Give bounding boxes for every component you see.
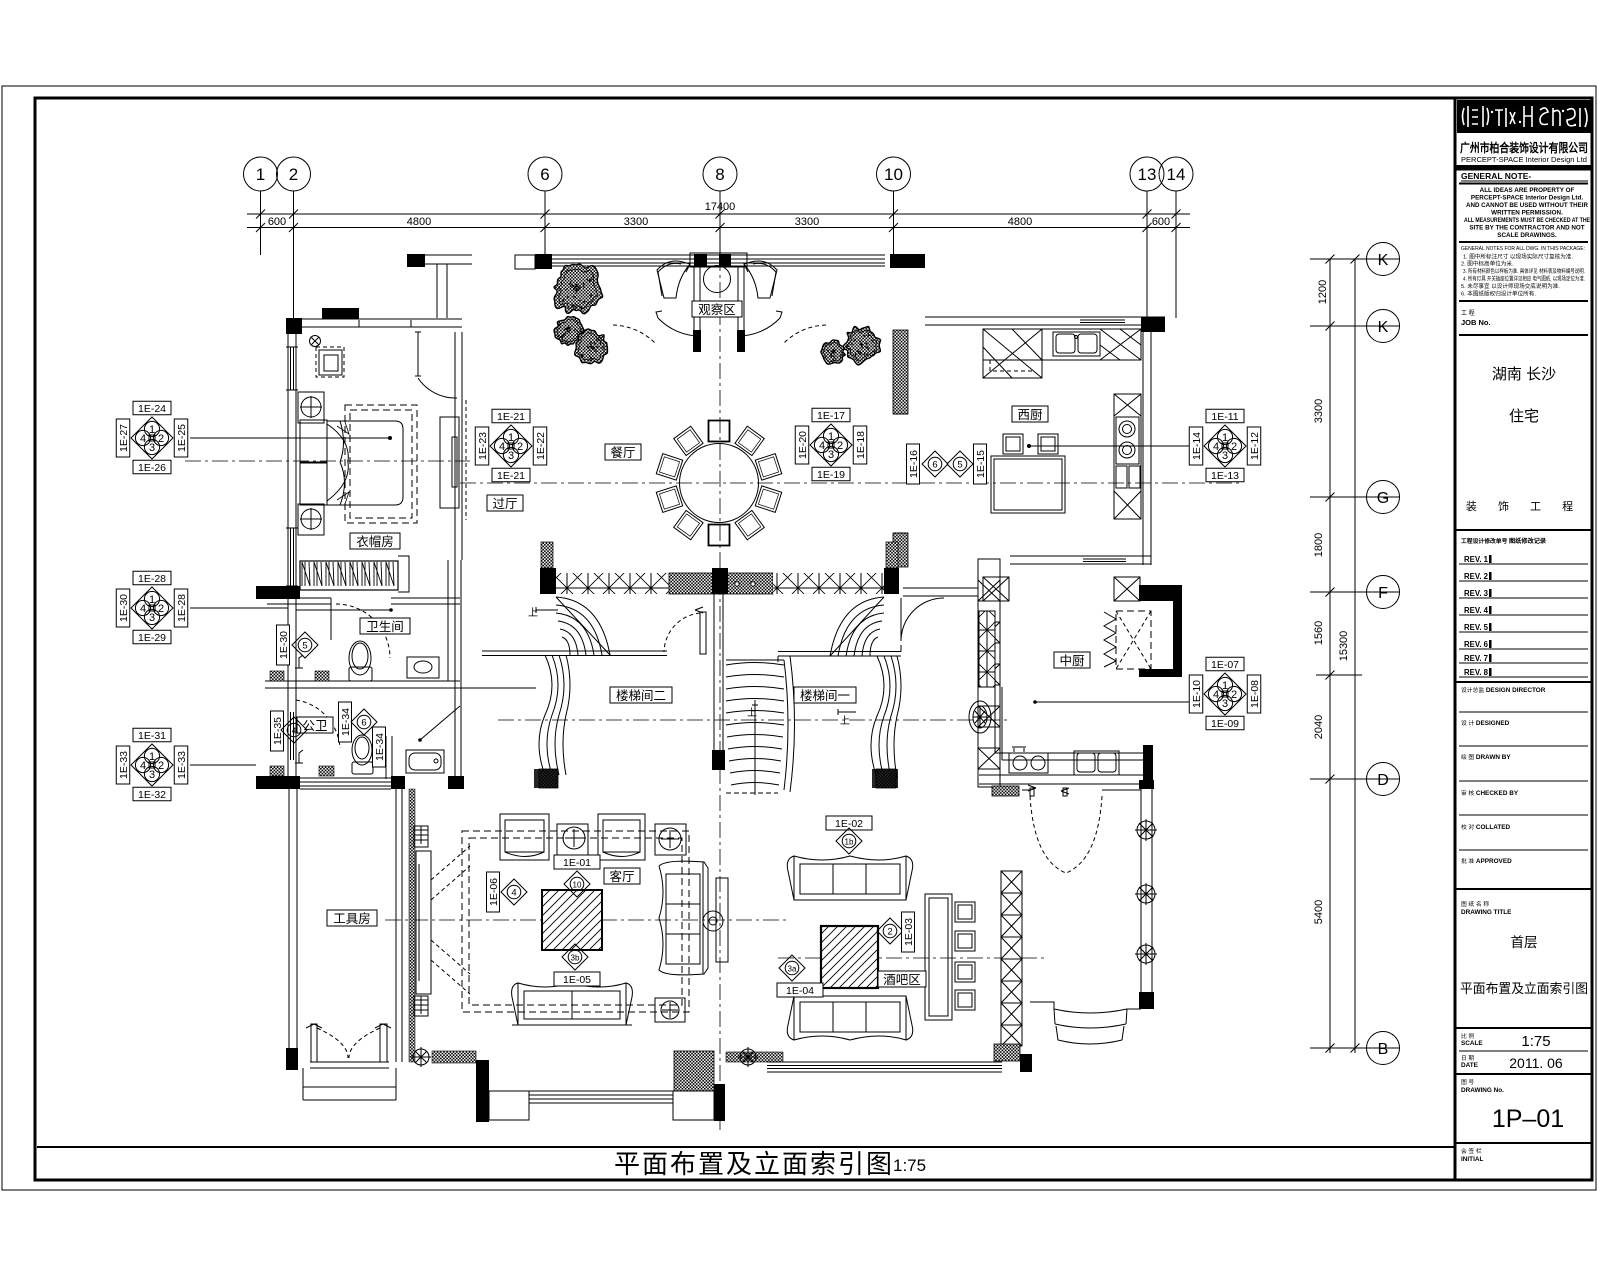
- svg-text:1:75: 1:75: [1521, 1033, 1550, 1050]
- svg-text:1E-04: 1E-04: [786, 985, 814, 997]
- index diamond 1b: [836, 828, 862, 854]
- column top wall right: [890, 254, 925, 268]
- leader C7: [1035, 701, 1197, 703]
- grid bubble K2: [1367, 310, 1400, 343]
- centerline living room: [385, 919, 790, 921]
- kitchen top X boxes: [1100, 329, 1141, 360]
- right grid tick K2: [1310, 325, 1400, 327]
- stair2 up arrow: [536, 607, 558, 613]
- bar counter: [925, 894, 952, 1020]
- index diamond 3a: [779, 955, 805, 981]
- index box 1E-01: [554, 855, 600, 869]
- svg-text:1800: 1800: [1313, 533, 1325, 557]
- svg-text:REV. 1: REV. 1: [1464, 555, 1489, 564]
- kitchen top counter: [983, 329, 1141, 360]
- svg-text:1:75: 1:75: [893, 1156, 926, 1175]
- bath2 door arc: [296, 700, 340, 748]
- bar stools: [955, 902, 975, 922]
- leader from C6: [1029, 445, 1197, 447]
- bottom wall of bath wing: [256, 776, 300, 789]
- svg-text:13: 13: [1138, 165, 1157, 184]
- elevation cluster 1E-31/1E-33/1E-32/1E-33: [116, 728, 188, 801]
- svg-text:比 例: 比 例: [1461, 1032, 1474, 1040]
- svg-text:600: 600: [1152, 216, 1170, 228]
- room label 衣帽房: [350, 533, 400, 549]
- living center table: [542, 890, 602, 950]
- svg-text:SITE BY THE CONTRACTOR AND N: SITE BY THE CONTRACTOR AND NOT: [1469, 225, 1584, 232]
- black separator bar: [1455, 165, 1592, 171]
- svg-text:1E-33: 1E-33: [176, 751, 188, 779]
- svg-text:日 期: 日 期: [1461, 1055, 1474, 1062]
- speaker box A: [298, 392, 324, 423]
- index diamond 5: [947, 451, 973, 477]
- svg-text:1E-15: 1E-15: [975, 450, 987, 478]
- tool room right wall: [395, 789, 397, 1062]
- wall stub down from col: [436, 264, 438, 318]
- decorative column: [969, 701, 991, 733]
- svg-text:2040: 2040: [1313, 715, 1325, 739]
- index box 1E-16: [907, 444, 921, 484]
- svg-text:首层: 首层: [1511, 935, 1538, 950]
- index diamond 6: [922, 451, 948, 477]
- bar top sofa: [787, 856, 913, 900]
- svg-text:工具房: 工具房: [333, 911, 371, 926]
- room label 楼梯间二: [610, 687, 672, 703]
- svg-text:4: 4: [499, 441, 505, 453]
- window symbols: [1135, 819, 1157, 965]
- grid bubble 1: [244, 157, 278, 191]
- dresser top: [316, 347, 344, 377]
- svg-text:1E-34: 1E-34: [374, 733, 386, 761]
- svg-text:1200: 1200: [1317, 280, 1329, 304]
- bedroom door: [415, 332, 421, 376]
- bed: [300, 420, 403, 505]
- kitchen top wall: [925, 316, 1165, 318]
- middle kitchen west hatch: [979, 611, 995, 687]
- bathtub: [406, 750, 444, 773]
- svg-text:1E-03: 1E-03: [903, 918, 915, 946]
- tool room left wall: [288, 789, 290, 1062]
- svg-text:1E-20: 1E-20: [797, 431, 809, 459]
- middle kitchen X columns: [983, 577, 1009, 601]
- svg-text:平面布置及立面索引图: 平面布置及立面索引图: [1460, 981, 1588, 996]
- bathroom1 walls: [267, 598, 331, 604]
- svg-text:REV. 5: REV. 5: [1464, 623, 1489, 632]
- dining chairs: [656, 421, 781, 546]
- svg-text:楼梯间二: 楼梯间二: [616, 688, 666, 703]
- tree group top right: [821, 326, 881, 364]
- svg-text:1E-28: 1E-28: [176, 594, 188, 622]
- svg-text:平面布置及立面索引图: 平面布置及立面索引图: [614, 1149, 894, 1179]
- bed rug dashed: [345, 405, 417, 523]
- svg-text:餐厅: 餐厅: [610, 445, 635, 460]
- column at grid (top wall left): [407, 254, 425, 267]
- speaker box B: [298, 504, 324, 535]
- left exterior wall lower (公卫): [287, 599, 289, 776]
- club room right window wall: [1140, 788, 1142, 1005]
- bathroom1 toilet: [349, 641, 372, 681]
- svg-text:5: 5: [302, 641, 307, 652]
- logo black box: [1457, 100, 1592, 133]
- grid line 10: [893, 191, 895, 258]
- svg-text:DRAWING No.: DRAWING No.: [1461, 1087, 1504, 1094]
- svg-text:1E-09: 1E-09: [1211, 718, 1239, 730]
- svg-text:衣帽房: 衣帽房: [356, 534, 394, 549]
- kitchen sink: [1053, 332, 1100, 356]
- svg-text:GENERAL NOTE-: GENERAL NOTE-: [1461, 171, 1531, 181]
- svg-text:B: B: [1378, 1041, 1389, 1058]
- hall lower wall left of stairs: [461, 687, 536, 689]
- svg-text:绘 图 DRAWN BY: 绘 图 DRAWN BY: [1461, 753, 1511, 761]
- window stripes left wall: [291, 347, 294, 390]
- top dimension line 17400: [247, 213, 1190, 215]
- kitchen cabinets small: [1116, 466, 1127, 488]
- svg-text:批 准 APPROVED: 批 准 APPROVED: [1461, 857, 1512, 865]
- centerline dining horizontal: [460, 482, 1240, 484]
- svg-text:8: 8: [715, 165, 724, 184]
- svg-text:设计总监 DESIGN DIRECTOR: 设计总监 DESIGN DIRECTOR: [1461, 686, 1546, 694]
- svg-text:REV. 6: REV. 6: [1464, 640, 1489, 649]
- svg-text:3: 3: [1222, 450, 1228, 462]
- grid line 1: [260, 191, 262, 255]
- corridor door mid: [700, 612, 706, 654]
- elevation cluster 1E-21/1E-22/1E-21/1E-23: [475, 409, 547, 482]
- bar mirror table: [821, 926, 878, 988]
- curved steps bottom right: [1030, 1002, 1141, 1009]
- elevation cluster 1E-17/1E-18/1E-19/1E-20: [795, 408, 867, 481]
- svg-text:4: 4: [511, 888, 516, 899]
- index box 1E-34: [339, 702, 353, 742]
- grid line 14: [1175, 191, 1177, 318]
- corridor wall x448 lower: [447, 604, 449, 681]
- entry vestibule walls: [693, 267, 695, 330]
- svg-text:1E-23: 1E-23: [477, 432, 489, 460]
- bath2 toilet: [352, 735, 373, 774]
- porch steps center: [529, 1091, 673, 1103]
- index diamond 6: [351, 709, 377, 735]
- svg-text:INITIAL: INITIAL: [1461, 1156, 1483, 1163]
- svg-text:1P–01: 1P–01: [1492, 1105, 1564, 1133]
- right grid tick mid: [1316, 674, 1362, 676]
- room label 卫生间: [360, 618, 410, 634]
- svg-text:楼梯间一: 楼梯间一: [800, 688, 850, 703]
- svg-text:D: D: [1377, 772, 1389, 789]
- svg-text:F: F: [1378, 585, 1388, 602]
- svg-text:4: 4: [1213, 441, 1219, 453]
- central stair wall: [713, 594, 715, 769]
- grid bubble 6: [528, 157, 562, 191]
- left exterior wall upper: [287, 327, 289, 592]
- grid bubble B: [1367, 1032, 1400, 1065]
- svg-text:REV. 7: REV. 7: [1464, 654, 1488, 663]
- svg-text:AND CANNOT BE USED WITHOUT: AND CANNOT BE USED WITHOUT THEIR: [1466, 202, 1588, 209]
- svg-text:6. 本图纸版权归设计单位所有.: 6. 本图纸版权归设计单位所有.: [1461, 290, 1536, 298]
- elevator: [1139, 585, 1182, 601]
- svg-text:10: 10: [573, 881, 582, 890]
- club top-right wall + double door: [1022, 789, 1141, 791]
- index box 1E-34: [373, 727, 387, 767]
- svg-text:10: 10: [884, 165, 903, 184]
- svg-text:REV. 4: REV. 4: [1464, 606, 1489, 615]
- svg-text:图 纸 名 称: 图 纸 名 称: [1461, 900, 1489, 908]
- svg-text:1E-05: 1E-05: [563, 974, 591, 986]
- svg-text:3300: 3300: [795, 216, 819, 228]
- right grid tick G: [1310, 496, 1400, 498]
- svg-text:上: 上: [840, 715, 850, 727]
- wall patch above bedroom: [322, 308, 359, 319]
- grid bubble 13: [1130, 157, 1164, 191]
- centerline bar: [778, 957, 1045, 959]
- svg-text:1b: 1b: [845, 838, 854, 847]
- svg-text:5. 未尽事宜 以设计师现场交底说明为准.: 5. 未尽事宜 以设计师现场交底说明为准.: [1461, 282, 1560, 290]
- stair1 fan right: [778, 597, 901, 778]
- svg-text:PERCEPT-SPACE Interior Desig: PERCEPT-SPACE Interior Design Ltd.: [1471, 195, 1583, 202]
- room label 客厅: [604, 868, 640, 884]
- MARKERS: [116, 401, 1261, 997]
- svg-text:会 签 栏: 会 签 栏: [1461, 1147, 1482, 1155]
- dining table: [680, 444, 759, 523]
- svg-text:SCALE: SCALE: [1461, 1040, 1483, 1047]
- svg-text:4. 所有灯具 开关插座位置详见相应 电气图纸, 以现场: 4. 所有灯具 开关插座位置详见相应 电气图纸, 以现场定位为准.: [1463, 275, 1585, 283]
- right grid tick B: [1310, 1047, 1400, 1049]
- kitchen island: [991, 456, 1065, 513]
- island chairs: [1003, 434, 1023, 454]
- grid line 6: [544, 191, 546, 258]
- svg-text:G: G: [1377, 490, 1389, 507]
- svg-text:观察区: 观察区: [698, 303, 736, 317]
- mk bottom wall: [979, 775, 1151, 784]
- PLAN: [185, 253, 1240, 1130]
- porch column left: [476, 1060, 489, 1122]
- grid line 13: [1146, 191, 1148, 318]
- elevation cluster 1E-11/1E-12/1E-13/1E-14: [1189, 409, 1261, 482]
- grid bubble 2: [277, 157, 311, 191]
- svg-text:600: 600: [268, 216, 286, 228]
- index box 1E-05: [554, 972, 600, 986]
- svg-text:1E-12: 1E-12: [1249, 432, 1261, 460]
- svg-text:1E-32: 1E-32: [138, 789, 166, 801]
- svg-text:REV. 8: REV. 8: [1464, 668, 1489, 677]
- central stair treads: [726, 656, 795, 793]
- title block left border: [1454, 98, 1457, 1180]
- index diamond 4: [281, 717, 307, 743]
- club west window wall: [978, 559, 1000, 787]
- index box 1E-04: [777, 983, 823, 997]
- stair band columns: [541, 542, 553, 568]
- svg-text:审 核 CHECKED BY: 审 核 CHECKED BY: [1461, 789, 1519, 797]
- svg-text:工程设计修改单号 图纸修改记录: 工程设计修改单号 图纸修改记录: [1461, 537, 1547, 545]
- kitchen mid wall: [1010, 556, 1151, 564]
- bath2 leader: [420, 706, 460, 740]
- svg-text:ALL MEASUREMENTS MUST BE CHECK: ALL MEASUREMENTS MUST BE CHECKED AT THE: [1464, 217, 1590, 224]
- svg-text:ALL IDEAS ARE PROPERTY OF: ALL IDEAS ARE PROPERTY OF: [1480, 187, 1575, 194]
- svg-text:3: 3: [149, 612, 155, 624]
- dressing mirror panel: [440, 417, 459, 508]
- svg-text:6: 6: [540, 165, 549, 184]
- index box 1E-35: [271, 711, 285, 751]
- room label 公卫: [297, 717, 333, 733]
- porch column right (hatched): [674, 1051, 714, 1091]
- wardrobe hatch row: [300, 561, 398, 590]
- grid bubble 8: [703, 157, 737, 191]
- svg-text:3300: 3300: [624, 216, 648, 228]
- svg-text:4: 4: [140, 433, 146, 445]
- grid line 8: [719, 191, 721, 255]
- grid bubble K: [1367, 243, 1400, 276]
- bar bottom sofa: [787, 996, 913, 1040]
- svg-text:5400: 5400: [1313, 900, 1325, 924]
- kitchen west door arc: [893, 414, 908, 533]
- club top wall: [903, 588, 978, 596]
- dim ticks top: [256, 210, 1181, 233]
- corner symbol bedroom: [310, 336, 321, 347]
- svg-text:上: 上: [747, 707, 757, 719]
- kitchen right counter: [1114, 394, 1141, 519]
- tool room porch steps: [303, 1062, 396, 1100]
- svg-text:1: 1: [256, 165, 265, 184]
- svg-text:3: 3: [149, 442, 155, 454]
- living rug dashed: [462, 831, 689, 1012]
- room label 酒吧区: [878, 971, 926, 987]
- svg-text:1E-10: 1E-10: [1191, 680, 1203, 708]
- porch step box right: [673, 1091, 714, 1120]
- svg-text:住宅: 住宅: [1509, 408, 1539, 425]
- index box 1E-03: [902, 912, 916, 952]
- svg-text:3. 所有材料颜色以样板为准. 具体详见 材料表及物料编号: 3. 所有材料颜色以样板为准. 具体详见 材料表及物料编号说明.: [1463, 267, 1585, 275]
- svg-text:1E-22: 1E-22: [535, 432, 547, 460]
- svg-text:REV. 3: REV. 3: [1464, 589, 1489, 598]
- index box 1E-15: [974, 444, 988, 484]
- stair band X right: [773, 573, 884, 594]
- svg-text:1E-21: 1E-21: [497, 411, 525, 423]
- svg-text:图 号: 图 号: [1461, 1078, 1474, 1086]
- svg-text:1E-33: 1E-33: [118, 751, 130, 779]
- room label 中厨: [1054, 652, 1090, 668]
- svg-text:4: 4: [140, 760, 146, 772]
- svg-text:1E-19: 1E-19: [817, 469, 845, 481]
- svg-text:1E-17: 1E-17: [817, 410, 845, 422]
- svg-text:3: 3: [828, 449, 834, 461]
- index box 1E-30: [277, 625, 291, 665]
- kitchen right wall: [1142, 325, 1144, 565]
- porch benches (观察区): [657, 261, 777, 298]
- centerline bedroom: [185, 460, 470, 462]
- svg-text:1E-24: 1E-24: [138, 403, 166, 415]
- elevation cluster 1E-24/1E-25/1E-26/1E-27: [116, 401, 188, 474]
- index box 1E-02: [826, 816, 872, 830]
- centerline stairs: [498, 719, 1010, 721]
- bath2 wall mid: [386, 736, 392, 779]
- grid line 2: [293, 191, 295, 318]
- svg-text:REV. 2: REV. 2: [1464, 572, 1489, 581]
- svg-text:6: 6: [932, 460, 937, 471]
- entry canopy: [690, 253, 747, 267]
- bottom title bar line: [37, 1146, 1455, 1148]
- index diamond 3b: [562, 944, 588, 970]
- svg-text:2: 2: [289, 165, 298, 184]
- svg-text:装 饰 工 程: 装 饰 工 程: [1466, 499, 1582, 513]
- room label 工具房: [327, 910, 377, 926]
- index box 1E-06: [487, 872, 501, 912]
- grid bubble D: [1367, 763, 1400, 796]
- insulation blocks bath1: [270, 671, 284, 681]
- entry door arcs: [656, 311, 700, 336]
- right grid tick D: [1310, 778, 1400, 780]
- mk stove: [1009, 753, 1048, 773]
- svg-text:3: 3: [508, 450, 514, 462]
- room label 餐厅: [605, 444, 641, 460]
- svg-text:DATE: DATE: [1461, 1062, 1479, 1069]
- svg-text:6: 6: [361, 718, 366, 729]
- index diamond 10: [564, 871, 590, 897]
- top wall upper band: [407, 253, 925, 318]
- right dimension line 15300: [1329, 259, 1331, 1053]
- living long sofa: [659, 861, 708, 975]
- mk sink: [1074, 751, 1119, 775]
- finish band right of tool room: [409, 789, 415, 1062]
- TITLEBLOCK: [1455, 98, 1592, 1180]
- living armchair 1: [500, 814, 549, 860]
- svg-text:K: K: [1378, 319, 1389, 336]
- svg-text:西厨: 西厨: [1017, 408, 1042, 422]
- living bottom window band right: [726, 1052, 783, 1062]
- svg-text:过厅: 过厅: [492, 497, 517, 511]
- svg-text:1E-21: 1E-21: [497, 470, 525, 482]
- right grid tick K: [1310, 258, 1400, 260]
- grid bubble 10: [877, 157, 911, 191]
- svg-text:1560: 1560: [1313, 621, 1325, 645]
- tree group top left: [554, 264, 608, 363]
- index diamond 4: [501, 879, 527, 905]
- bar screen X band: [1001, 871, 1022, 1046]
- svg-text:1. 图中所标注尺寸 以现场实际尺寸复核为准.: 1. 图中所标注尺寸 以现场实际尺寸复核为准.: [1463, 253, 1573, 261]
- svg-text:4: 4: [292, 727, 297, 736]
- svg-text:SCALE DRAWINGS.: SCALE DRAWINGS.: [1497, 232, 1557, 239]
- living bottom wall window band left: [432, 1053, 476, 1062]
- svg-text:酒吧区: 酒吧区: [883, 973, 921, 987]
- svg-text:14: 14: [1167, 165, 1186, 184]
- sliding door panel living west: [416, 851, 431, 994]
- svg-text:1E-31: 1E-31: [138, 730, 166, 742]
- porch step box left: [489, 1091, 529, 1120]
- bathroom1 leader: [296, 609, 391, 611]
- elevation cluster 1E-28/1E-28/1E-29/1E-30: [116, 571, 188, 644]
- svg-text:1E-14: 1E-14: [1191, 432, 1203, 460]
- room label 过厅: [487, 495, 523, 511]
- index diamond 2: [877, 918, 903, 944]
- svg-text:5: 5: [957, 460, 962, 471]
- svg-text:DRAWING TITLE: DRAWING TITLE: [1461, 909, 1512, 916]
- svg-text:4: 4: [140, 603, 146, 615]
- svg-text:GENERAL NOTES FOR ALL DWG. IN: GENERAL NOTES FOR ALL DWG. IN THIS PACKA…: [1461, 246, 1585, 252]
- svg-text:K: K: [1378, 252, 1389, 269]
- svg-text:2: 2: [887, 927, 892, 938]
- stair band X left: [556, 573, 669, 594]
- logo white glyphs: [1463, 106, 1588, 127]
- index diamond 5: [292, 632, 318, 658]
- svg-text:广州市柏合装饰设计有限公司: 广州市柏合装饰设计有限公司: [1460, 140, 1588, 155]
- svg-text:4800: 4800: [1008, 216, 1032, 228]
- svg-text:JOB No.: JOB No.: [1461, 318, 1491, 327]
- svg-text:3: 3: [1222, 698, 1228, 710]
- stair1 up arrow: [838, 709, 856, 715]
- svg-text:2. 图中标高单位为米.: 2. 图中标高单位为米.: [1461, 260, 1514, 268]
- svg-text:1E-34: 1E-34: [340, 708, 352, 736]
- top dimension line segments: [247, 227, 1190, 229]
- svg-text:4: 4: [1213, 689, 1219, 701]
- svg-text:1E-18: 1E-18: [855, 431, 867, 459]
- bedroom top wall: [286, 318, 302, 334]
